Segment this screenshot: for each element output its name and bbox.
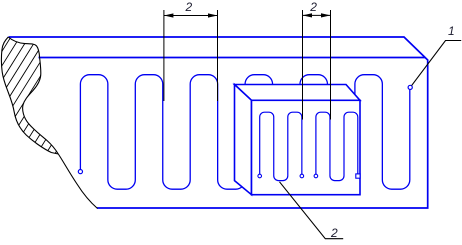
terminal square B2 <box>356 174 360 178</box>
dimension A line <box>164 15 218 17</box>
leader line for item 2 <box>280 182 344 239</box>
svg-text:1: 1 <box>448 24 455 38</box>
small heating element B (inside box) <box>316 112 358 180</box>
dimension A arrow left <box>164 13 174 17</box>
svg-text:2: 2 <box>330 226 338 240</box>
dimension B extension line right <box>330 10 332 120</box>
small box: left side face <box>235 85 252 195</box>
terminal circle B1 <box>314 174 318 178</box>
small box: top face <box>235 85 361 101</box>
heating element (large serpentine coil) <box>80 75 409 190</box>
broken-away edge: break line inner boundary <box>8 37 58 154</box>
dimension A arrow right <box>208 13 218 17</box>
plate outline <box>9 37 428 208</box>
plate front top edge <box>39 57 426 59</box>
dimension B line <box>303 14 331 16</box>
leader line for item 1 <box>412 41 462 86</box>
small box: front face <box>252 100 361 194</box>
dimension A extension line left <box>163 10 165 101</box>
broken-away edge: hatching <box>0 16 150 168</box>
svg-text:2: 2 <box>184 0 192 14</box>
broken-away edge: break line outer boundary <box>1 37 58 154</box>
svg-text:2: 2 <box>309 0 317 14</box>
broken-away edge: break line tail to plate bottom <box>58 154 97 209</box>
terminal circle A2 <box>300 174 304 178</box>
dimension B arrow right <box>321 13 331 17</box>
terminal circle A1 <box>258 174 262 178</box>
terminal circle, coil end (right) <box>408 85 412 89</box>
dimension A extension line right <box>217 10 219 101</box>
dimension B extension line left <box>302 10 304 120</box>
terminal circle, coil start (left) <box>78 170 82 174</box>
small heating element A (inside box) <box>260 112 302 180</box>
dimension B arrow left <box>303 13 313 17</box>
